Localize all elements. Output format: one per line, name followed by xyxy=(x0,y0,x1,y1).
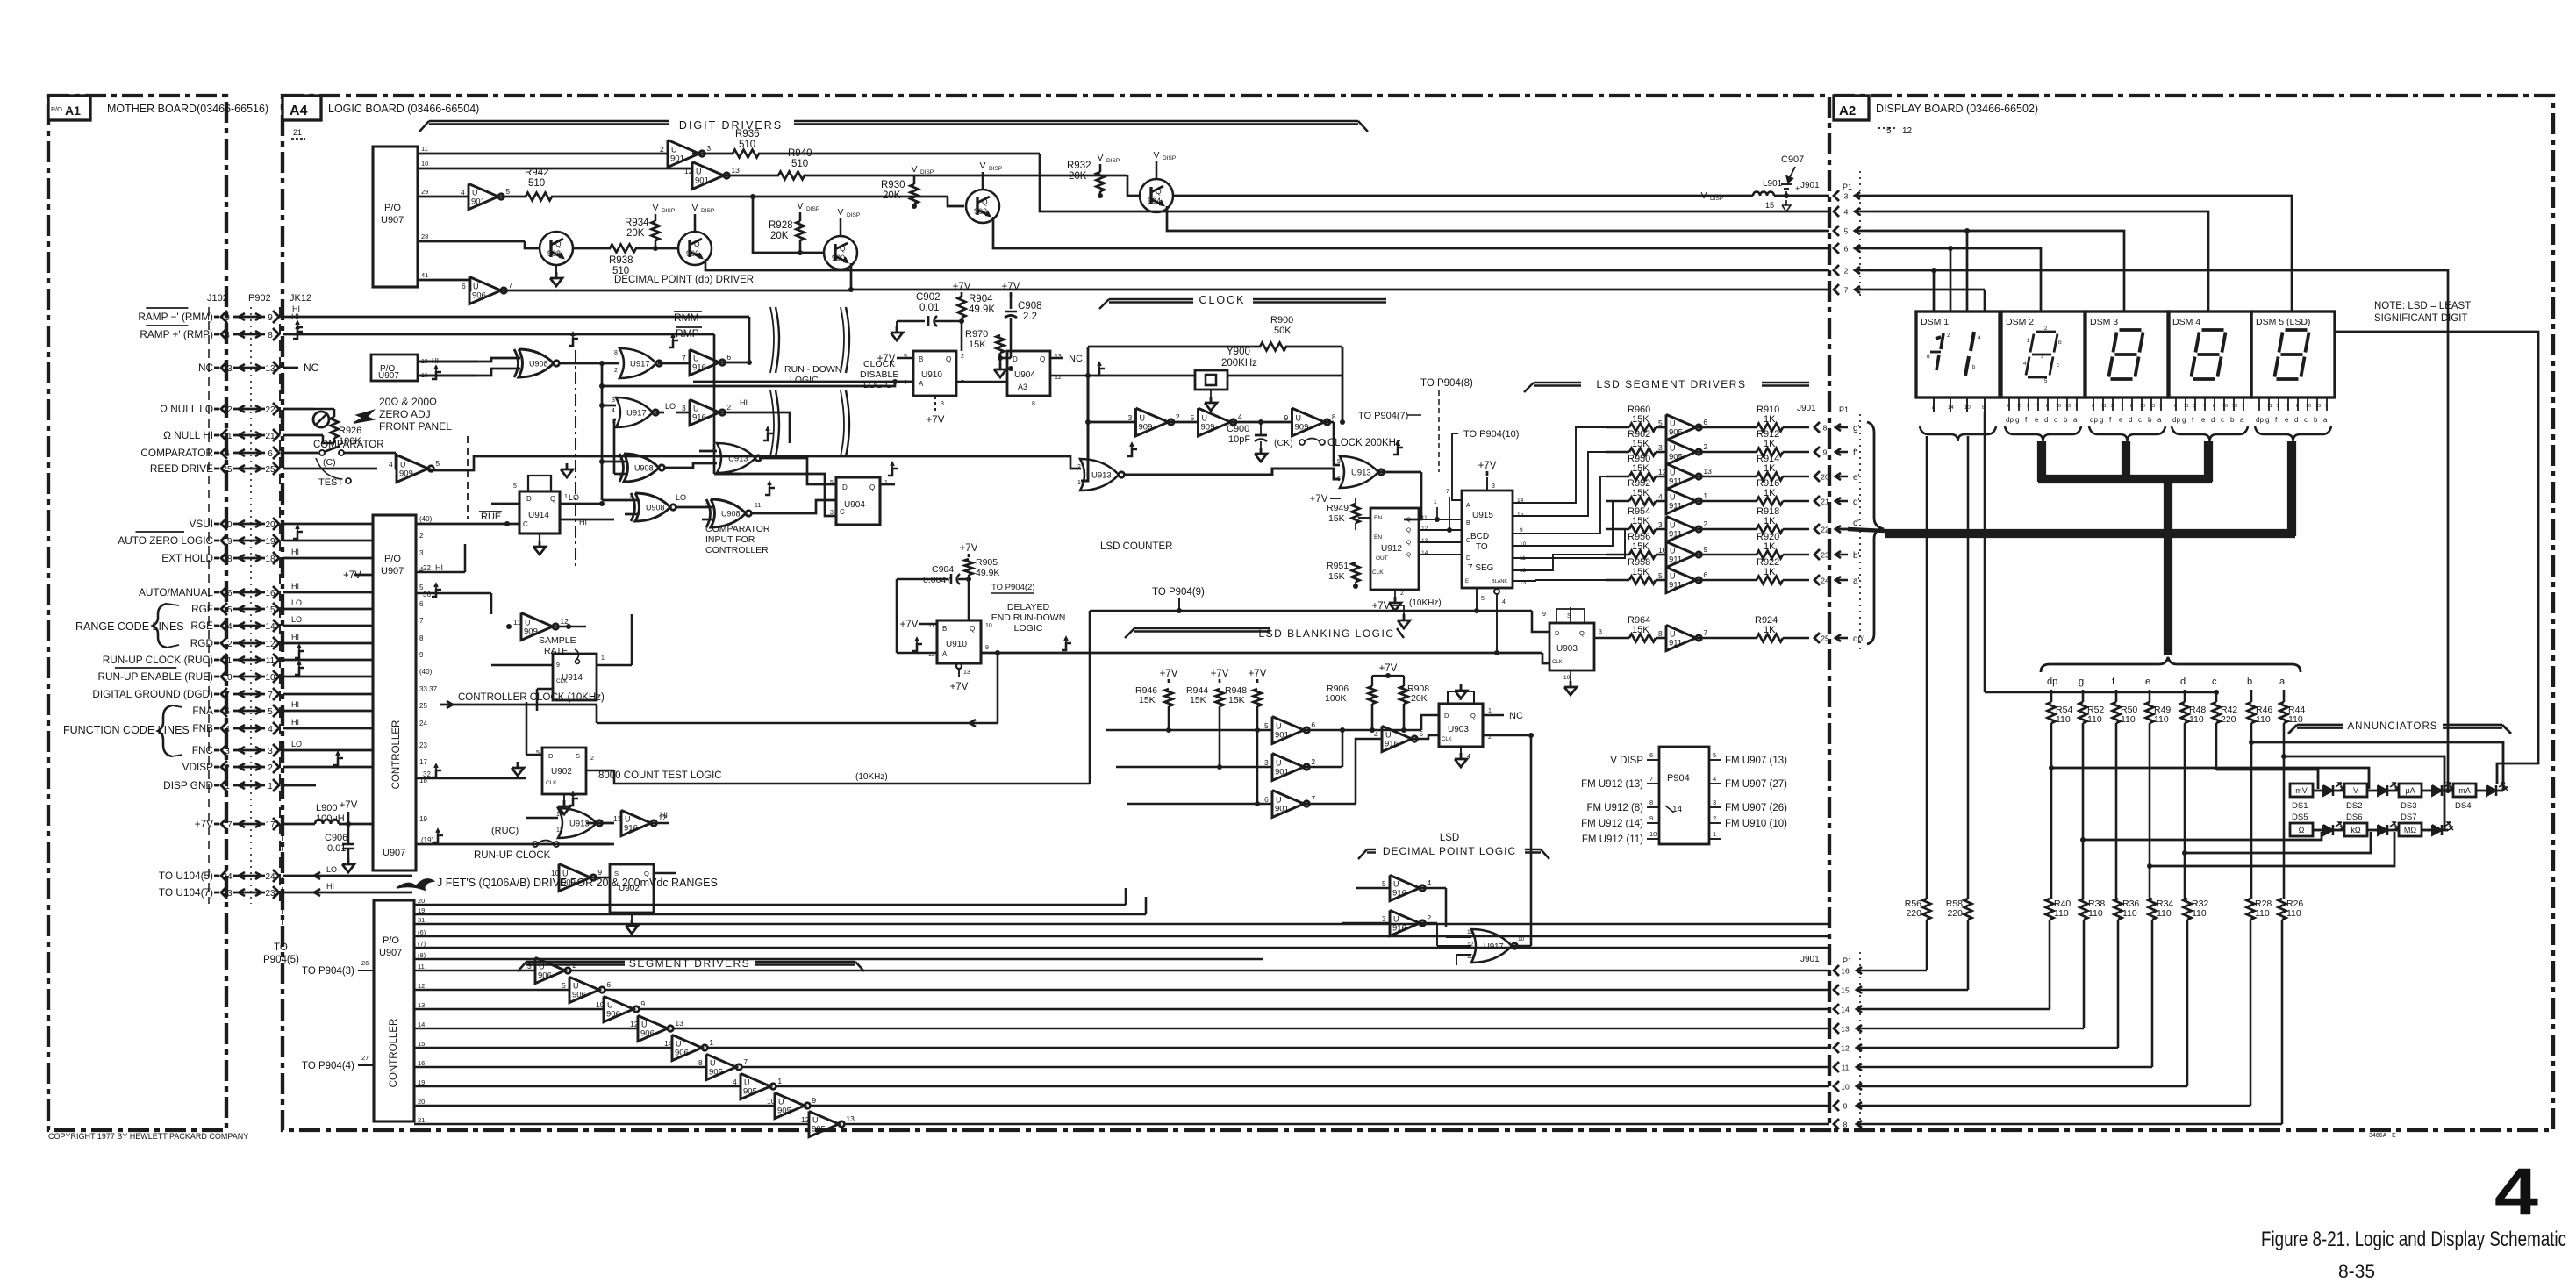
svg-text:10: 10 xyxy=(1658,546,1667,555)
svg-text:U: U xyxy=(1140,414,1146,423)
svg-text:6: 6 xyxy=(225,449,230,459)
svg-text:Q: Q xyxy=(644,870,649,877)
svg-text:DISP GND: DISP GND xyxy=(163,779,213,791)
svg-text:Q: Q xyxy=(1470,712,1476,720)
svg-text:R951: R951 xyxy=(1327,561,1349,571)
svg-text:dp: dp xyxy=(2256,416,2264,424)
svg-text:Q: Q xyxy=(555,240,562,248)
svg-text:3: 3 xyxy=(268,747,273,756)
svg-text:U: U xyxy=(1385,731,1392,740)
svg-text:12: 12 xyxy=(684,167,693,175)
P904 right labels xyxy=(1709,751,1787,839)
svg-text:V: V xyxy=(979,161,985,171)
svg-text:6: 6 xyxy=(606,980,611,989)
svg-text:100K: 100K xyxy=(1325,693,1347,704)
svg-text:FM U907 (26): FM U907 (26) xyxy=(1725,803,1787,813)
svg-text:9: 9 xyxy=(1520,527,1523,534)
segment driver row pin 12 inverter U906 xyxy=(414,977,1829,1002)
svg-text:2: 2 xyxy=(572,961,576,970)
svg-text:DECIMAL POINT (dp) DRIVER: DECIMAL POINT (dp) DRIVER xyxy=(614,275,754,285)
gate U913 a mid xyxy=(1077,376,1340,491)
segment driver row b' resistor R956 gate inverter resistor R920 xyxy=(1606,532,1860,568)
svg-text:9: 9 xyxy=(597,868,602,877)
inverter U901 a xyxy=(668,140,699,168)
svg-text:15K: 15K xyxy=(1328,571,1345,582)
comparator test switch xyxy=(283,440,396,488)
resistor R928 20K xyxy=(769,201,823,255)
svg-text:905: 905 xyxy=(1669,453,1683,462)
braces under DSM modules xyxy=(1920,426,2331,441)
dp driver row R964 U911 R924 xyxy=(1594,615,1864,651)
svg-text:11: 11 xyxy=(2017,404,2022,409)
svg-text:U: U xyxy=(778,1098,784,1107)
svg-text:DSM 3: DSM 3 xyxy=(2090,317,2118,327)
svg-text:(7): (7) xyxy=(418,940,426,948)
connector row VSUI pin 20 xyxy=(189,518,279,530)
svg-text:+7V: +7V xyxy=(950,682,969,692)
clock inverters U909 x3 xyxy=(1088,408,1345,436)
resistor R26 110 xyxy=(2279,899,2304,920)
svg-text:U: U xyxy=(1670,521,1676,530)
gate U917 b xyxy=(599,397,689,427)
svg-text:20K: 20K xyxy=(626,228,645,239)
svg-text:E: E xyxy=(1465,579,1469,584)
svg-text:911: 911 xyxy=(1669,555,1682,565)
header SEGMENT DRIVERS xyxy=(518,957,864,971)
svg-text:4: 4 xyxy=(1844,208,1849,217)
svg-text:25: 25 xyxy=(419,702,427,710)
svg-text:15K: 15K xyxy=(1139,695,1156,705)
svg-text:23: 23 xyxy=(1821,551,1829,560)
svg-text:2: 2 xyxy=(1703,442,1707,451)
svg-text:FRONT PANEL: FRONT PANEL xyxy=(379,420,452,433)
svg-text:2: 2 xyxy=(590,756,594,762)
svg-text:Ω NULL LO: Ω NULL LO xyxy=(160,403,213,415)
svg-text:1K: 1K xyxy=(1764,414,1776,425)
svg-text:110: 110 xyxy=(2192,908,2207,919)
wire 10KHz clock riser xyxy=(614,611,1549,784)
svg-text:6: 6 xyxy=(1337,476,1341,483)
svg-text:2: 2 xyxy=(2111,404,2114,409)
svg-text:1: 1 xyxy=(2242,404,2244,409)
wires segment columns down to bottom resistors xyxy=(2050,723,2284,899)
svg-text:AUTO/MANUAL: AUTO/MANUAL xyxy=(139,586,213,598)
annunciator DS4 mA xyxy=(2453,784,2476,797)
inverter U909 sample rate xyxy=(416,613,586,650)
svg-text:14: 14 xyxy=(222,622,233,632)
svg-text:DISP: DISP xyxy=(1163,155,1176,161)
annunciator DS1 mV xyxy=(2290,784,2313,797)
svg-text:110: 110 xyxy=(2054,908,2069,919)
wire digit line 1 xyxy=(418,153,668,155)
svg-text:RUN-UP CLOCK: RUN-UP CLOCK xyxy=(474,850,551,861)
wires U915 below xyxy=(1474,588,1506,655)
connector row FNA pin 5 xyxy=(192,705,279,717)
svg-text:8: 8 xyxy=(1332,412,1336,421)
gate U908 d xyxy=(691,482,836,562)
svg-text:909: 909 xyxy=(1295,423,1309,433)
svg-text:110: 110 xyxy=(2154,714,2169,725)
svg-text:220: 220 xyxy=(1906,908,1921,919)
resistor R905 49.9K xyxy=(960,543,1000,579)
wire U910b output row xyxy=(981,637,1549,663)
svg-text:13: 13 xyxy=(222,364,233,374)
svg-text:Q: Q xyxy=(1156,187,1162,196)
svg-text:e: e xyxy=(2035,416,2039,424)
svg-text:U: U xyxy=(562,870,569,878)
segment driver row pin 13 inverter U906 xyxy=(414,996,1829,1021)
svg-text:e: e xyxy=(2201,416,2206,424)
svg-text:5: 5 xyxy=(1713,751,1716,759)
ground below U903b xyxy=(1455,747,1470,767)
svg-text:U913: U913 xyxy=(1091,471,1112,481)
svg-text:110: 110 xyxy=(2288,714,2303,725)
connector row Ω NULL HI pin 21 xyxy=(163,429,279,441)
svg-text:2: 2 xyxy=(1703,519,1707,528)
capacitor C906 0.01 xyxy=(325,824,354,858)
svg-text:7: 7 xyxy=(225,691,230,700)
resistor R56 220 xyxy=(1905,899,1931,920)
svg-text:11: 11 xyxy=(223,656,233,666)
connector row DISP GND pin 1 xyxy=(163,779,279,791)
ground below Q908 xyxy=(550,265,562,286)
svg-text:Q: Q xyxy=(694,240,700,248)
svg-text:15K: 15K xyxy=(969,340,986,350)
svg-text:17: 17 xyxy=(222,820,233,830)
svg-text:14: 14 xyxy=(1672,805,1683,814)
svg-text:mV: mV xyxy=(2295,786,2308,795)
svg-text:RAMP +' (RMP): RAMP +' (RMP) xyxy=(140,328,213,340)
svg-text:RMP: RMP xyxy=(676,327,699,340)
svg-text:TO U104(7): TO U104(7) xyxy=(159,886,213,899)
brace above segment letters xyxy=(2041,657,2301,672)
svg-text:15K: 15K xyxy=(1190,695,1206,705)
svg-text:FNC: FNC xyxy=(192,744,214,756)
svg-text:13: 13 xyxy=(613,814,622,823)
svg-text:B: B xyxy=(942,625,947,633)
svg-text:Figure 8-21. Logic and Displa: Figure 8-21. Logic and Display Schematic xyxy=(2261,1228,2566,1251)
svg-text:COMPARATOR: COMPARATOR xyxy=(705,524,770,534)
svg-text:+7V: +7V xyxy=(1372,601,1391,612)
note JFETs drive xyxy=(397,877,718,890)
capacitor C908 2.2 xyxy=(1000,282,1042,358)
svg-text:Q: Q xyxy=(1579,629,1585,637)
svg-text:LSD BLANKING LOGIC: LSD BLANKING LOGIC xyxy=(1258,627,1394,640)
svg-text:LSD: LSD xyxy=(1440,833,1459,843)
svg-text:2: 2 xyxy=(1713,814,1716,822)
blanking inverter U901 e xyxy=(1116,754,1315,781)
svg-text:TO P904(4): TO P904(4) xyxy=(302,1061,354,1071)
svg-text:RGE: RGE xyxy=(190,620,213,632)
svg-text:6: 6 xyxy=(2174,404,2177,409)
inductor L900 100uH on +7V row xyxy=(283,800,373,827)
connector J901 top arrows xyxy=(1834,190,1869,295)
svg-text:9: 9 xyxy=(998,354,1001,360)
svg-text:c: c xyxy=(2054,416,2057,424)
svg-text:U: U xyxy=(693,355,699,363)
svg-text:D: D xyxy=(526,495,532,503)
svg-text:1: 1 xyxy=(268,782,273,791)
svg-text:U: U xyxy=(400,461,406,469)
svg-text:C906: C906 xyxy=(325,833,347,843)
svg-text:b: b xyxy=(2064,416,2068,424)
svg-text:21: 21 xyxy=(418,1116,425,1124)
svg-text:U: U xyxy=(1670,630,1676,639)
svg-text:V: V xyxy=(1153,150,1159,161)
svg-text:RGF: RGF xyxy=(191,603,213,615)
svg-text:(CK): (CK) xyxy=(1274,438,1293,448)
svg-text:9: 9 xyxy=(1703,545,1707,554)
resistor R28 110 xyxy=(2247,899,2272,920)
wire Q904 emitter line xyxy=(1173,195,1718,197)
svg-text:J901: J901 xyxy=(1800,181,1820,190)
svg-text:20: 20 xyxy=(418,1098,425,1106)
svg-text:NC: NC xyxy=(304,362,319,374)
svg-text:13: 13 xyxy=(2065,404,2071,409)
svg-text:FNA: FNA xyxy=(192,705,213,717)
svg-text:a: a xyxy=(2279,677,2286,687)
svg-text:DS7: DS7 xyxy=(2401,813,2416,822)
svg-text:DISPLAY BOARD (03466-66502): DISPLAY BOARD (03466-66502) xyxy=(1876,103,2038,115)
svg-text:dp: dp xyxy=(2090,416,2098,424)
svg-text:916: 916 xyxy=(1392,889,1406,899)
svg-text:909: 909 xyxy=(399,469,413,479)
wires DSM1 cathode columns xyxy=(1897,436,1968,1123)
ic P/O U907 rundown box xyxy=(371,355,441,381)
svg-text:9: 9 xyxy=(419,651,424,659)
svg-text:8-35: 8-35 xyxy=(2338,1262,2375,1282)
svg-text:DSM 1: DSM 1 xyxy=(1921,317,1949,327)
header ANNUNCIATORS xyxy=(2288,721,2511,734)
svg-text:c: c xyxy=(2304,416,2308,424)
svg-text:b: b xyxy=(2058,340,2062,346)
svg-text:24: 24 xyxy=(1821,577,1829,585)
connector row AUTO ZERO LOGIC pin 19 xyxy=(118,532,279,547)
svg-text:10: 10 xyxy=(2306,404,2311,409)
svg-text:3: 3 xyxy=(682,404,686,412)
svg-text:P904: P904 xyxy=(1667,773,1690,784)
svg-text:U910: U910 xyxy=(946,640,967,649)
wire RMP row into logic xyxy=(283,321,741,474)
svg-text:FM U912 (11): FM U912 (11) xyxy=(1582,834,1643,845)
svg-text:911: 911 xyxy=(1669,639,1682,648)
header LSD SEGMENT DRIVERS xyxy=(1524,378,1809,392)
DSM3 digit xyxy=(2120,328,2142,332)
svg-text:20: 20 xyxy=(1821,473,1829,482)
svg-text:Q: Q xyxy=(1406,527,1411,534)
svg-text:6: 6 xyxy=(2258,404,2260,409)
svg-text:μA: μA xyxy=(2405,786,2415,795)
board outline A2 display board xyxy=(1834,96,2553,1130)
svg-text:50K: 50K xyxy=(1274,326,1292,336)
svg-text:6: 6 xyxy=(1703,570,1707,579)
svg-text:COMPARATOR: COMPARATOR xyxy=(140,447,213,459)
resistor R951 15K xyxy=(1327,561,1360,589)
svg-text:3: 3 xyxy=(1658,443,1663,452)
wires J901 bottom to resistor columns xyxy=(1857,920,2282,1124)
svg-text:+7V: +7V xyxy=(1310,494,1328,505)
svg-text:U: U xyxy=(812,1116,819,1125)
svg-text:DSM 2: DSM 2 xyxy=(2006,317,2034,327)
svg-text:2: 2 xyxy=(726,403,731,412)
wire to U910a input xyxy=(602,382,913,386)
svg-text:6: 6 xyxy=(268,449,273,459)
DSM1 digit plus-minus one xyxy=(1927,332,1981,376)
svg-text:909: 909 xyxy=(1139,423,1153,433)
svg-text:HI: HI xyxy=(291,548,299,556)
blanking inverter U901 d xyxy=(1106,658,1315,744)
svg-text:20K: 20K xyxy=(1069,171,1087,182)
svg-text:U: U xyxy=(1296,414,1302,423)
svg-text:10: 10 xyxy=(596,1000,605,1009)
annunciator DS5 ohm xyxy=(2290,823,2313,836)
connector row AUTO/MANUAL pin 16 xyxy=(139,586,279,598)
svg-text:CLK: CLK xyxy=(1552,660,1563,665)
svg-text:HI: HI xyxy=(435,563,443,572)
svg-text:110: 110 xyxy=(2255,908,2270,919)
wire NC row xyxy=(283,362,319,374)
svg-text:3: 3 xyxy=(1264,758,1269,767)
svg-text:2: 2 xyxy=(419,532,424,540)
wire to Q902 base xyxy=(948,197,964,206)
svg-text:D: D xyxy=(842,483,848,491)
display module DSM 5 xyxy=(2251,312,2335,397)
segment driver row pin 20 inverter U905 xyxy=(414,1092,1829,1118)
resistor R942 510 xyxy=(500,168,948,201)
svg-text:U: U xyxy=(1276,759,1282,768)
svg-text:15: 15 xyxy=(418,1040,425,1048)
svg-text:16: 16 xyxy=(418,1059,425,1067)
svg-text:U: U xyxy=(473,283,479,291)
svg-text:1K: 1K xyxy=(1764,567,1776,577)
brace FUNCTION CODE LINES xyxy=(63,705,190,756)
wire to Q904 base xyxy=(1127,175,1140,196)
svg-text:13: 13 xyxy=(2232,404,2237,409)
svg-text:e: e xyxy=(2145,677,2150,687)
svg-text:U904: U904 xyxy=(844,500,865,510)
svg-text:2: 2 xyxy=(225,763,230,773)
display module DSM 4 xyxy=(2168,312,2251,397)
svg-text:4: 4 xyxy=(733,1078,737,1086)
svg-text:2: 2 xyxy=(2193,404,2196,409)
svg-text:5: 5 xyxy=(1191,413,1195,422)
svg-text:+7V: +7V xyxy=(1379,663,1398,674)
svg-text:906: 906 xyxy=(472,291,486,301)
svg-text:27: 27 xyxy=(361,1054,369,1062)
resistor R42 220 xyxy=(2213,690,2238,725)
svg-text:EN: EN xyxy=(1374,534,1382,541)
svg-text:LOGIC BOARD (03466-66504): LOGIC BOARD (03466-66504) xyxy=(328,103,479,115)
svg-text:U: U xyxy=(1276,722,1282,731)
svg-text:906: 906 xyxy=(572,991,586,1000)
svg-text:a: a xyxy=(2240,416,2244,424)
wire DSM5 right to annunciator supply xyxy=(2335,332,2538,784)
svg-text:11: 11 xyxy=(2184,404,2189,409)
svg-text:4: 4 xyxy=(1374,730,1378,739)
svg-text:4: 4 xyxy=(1713,775,1716,783)
svg-text:HI: HI xyxy=(660,811,668,820)
svg-text:16: 16 xyxy=(1841,967,1850,976)
svg-text:5: 5 xyxy=(1658,419,1663,427)
svg-text:4: 4 xyxy=(1427,878,1431,887)
svg-text:2: 2 xyxy=(614,368,618,374)
svg-text:L900: L900 xyxy=(316,803,337,813)
svg-text:EN: EN xyxy=(1374,515,1382,521)
svg-text:NC: NC xyxy=(1509,711,1523,721)
svg-text:DISP: DISP xyxy=(662,208,675,214)
label RMM' xyxy=(674,312,702,324)
svg-text:D: D xyxy=(548,752,554,760)
svg-text:7: 7 xyxy=(2203,404,2206,409)
svg-text:4: 4 xyxy=(461,188,465,197)
svg-text:+7V: +7V xyxy=(195,818,213,830)
svg-text:5: 5 xyxy=(1264,721,1269,730)
svg-text:1: 1 xyxy=(1077,480,1081,486)
resistor R44 110 xyxy=(2280,690,2306,725)
svg-text:220: 220 xyxy=(1947,908,1963,919)
svg-text:905: 905 xyxy=(777,1107,791,1116)
svg-text:8: 8 xyxy=(1032,401,1035,407)
annunciator row 1 wire xyxy=(2313,790,2503,792)
svg-text:A1: A1 xyxy=(65,104,81,118)
svg-text:LO: LO xyxy=(569,493,579,502)
svg-text:(40): (40) xyxy=(419,515,433,523)
svg-text:FM U912 (14): FM U912 (14) xyxy=(1581,819,1643,829)
svg-text:10pF: 10pF xyxy=(1228,434,1250,445)
svg-text:U: U xyxy=(641,1021,648,1029)
svg-text:S: S xyxy=(576,752,580,760)
svg-text:110: 110 xyxy=(2189,714,2204,725)
thick bus horizontal upper xyxy=(2038,475,2212,483)
svg-text:13: 13 xyxy=(963,670,970,676)
display module DSM 3 xyxy=(2086,312,2169,397)
svg-text:V: V xyxy=(911,164,917,175)
inverter U906 dp xyxy=(469,277,501,304)
segment driver row c' resistor R954 gate inverter resistor R918 xyxy=(1606,506,1859,542)
svg-text:d: d xyxy=(2180,677,2186,687)
svg-text:20K: 20K xyxy=(1411,693,1428,704)
crystal Y900 200KHz xyxy=(1085,347,1342,425)
svg-text:END RUN-DOWN: END RUN-DOWN xyxy=(991,612,1066,623)
svg-text:6: 6 xyxy=(2007,404,2010,409)
svg-text:110: 110 xyxy=(2121,714,2136,725)
gate U913 b xyxy=(699,386,836,484)
svg-text:NC: NC xyxy=(198,362,214,374)
label SAMPLE RATE xyxy=(539,635,580,664)
resistor R904 49.9K xyxy=(953,282,996,351)
transistor Q908 xyxy=(540,232,573,265)
svg-text:905: 905 xyxy=(743,1087,757,1097)
svg-text:2: 2 xyxy=(1077,464,1081,470)
svg-text:1: 1 xyxy=(712,462,716,469)
svg-text:B: B xyxy=(1466,520,1470,526)
svg-text:15: 15 xyxy=(222,605,233,615)
svg-text:2: 2 xyxy=(2277,404,2279,409)
svg-text:TO P904(8): TO P904(8) xyxy=(1420,378,1473,389)
wire Q902 collector to line 4 xyxy=(993,217,1829,248)
svg-text:1: 1 xyxy=(709,1038,713,1047)
svg-text:110: 110 xyxy=(2056,714,2071,725)
svg-text:A3: A3 xyxy=(1018,383,1027,391)
svg-text:RMM: RMM xyxy=(674,312,699,324)
svg-text:15: 15 xyxy=(1841,986,1850,995)
svg-text:905: 905 xyxy=(812,1125,826,1135)
transistor Q904 xyxy=(1140,150,1176,212)
designator box P/O A1 xyxy=(48,96,90,120)
svg-text:20: 20 xyxy=(222,520,233,530)
DSM2 digit with segment labels xyxy=(2023,326,2062,384)
connector row RAMP −' (RMM) pin 9 xyxy=(138,308,279,323)
